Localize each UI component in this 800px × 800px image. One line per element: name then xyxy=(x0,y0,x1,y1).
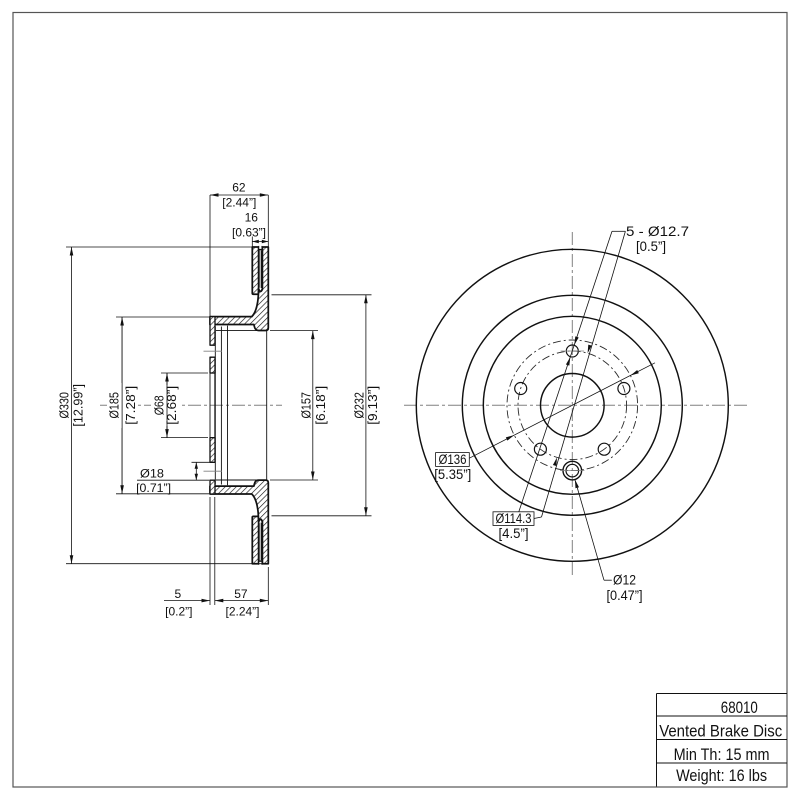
62/16 dim extension right xyxy=(267,195,269,247)
svg-text:[0.63”]: [0.63”] xyxy=(232,226,266,240)
svg-text:Ø157: Ø157 xyxy=(298,392,313,419)
vent slot top cap (lower) xyxy=(259,519,263,522)
hat wall between bore and lower hole xyxy=(210,438,215,463)
table row line 2 xyxy=(657,739,788,741)
svg-text:[2.44”]: [2.44”] xyxy=(222,196,256,210)
bore edge bottom O68 xyxy=(210,437,215,439)
16 dim extension left xyxy=(251,237,253,247)
lower hole center tick xyxy=(560,470,584,472)
inboard plate, neck and hat barrel (lower section) xyxy=(210,480,268,564)
hat wall lower piece xyxy=(210,480,215,494)
friction band inner circle O232 xyxy=(462,295,682,515)
front view horizontal centerline xyxy=(404,404,750,406)
svg-text:Ø136: Ø136 xyxy=(439,452,467,467)
svg-text:62: 62 xyxy=(232,181,246,195)
O330 extension top xyxy=(66,246,252,248)
svg-text:[0.2”]: [0.2”] xyxy=(165,604,192,618)
svg-text:5: 5 xyxy=(174,587,181,601)
svg-text:Ø12: Ø12 xyxy=(613,573,636,588)
leader line C O136 diameter xyxy=(469,363,655,458)
leader line D to O12 hole xyxy=(575,480,604,581)
disc outer circle O330 xyxy=(416,249,728,561)
svg-text:[9.13”]: [9.13”] xyxy=(365,386,380,425)
hat face edge across bore xyxy=(209,373,211,438)
svg-text:Ø185: Ø185 xyxy=(107,392,122,419)
O330 dimension line xyxy=(71,247,73,564)
hat circle O185 xyxy=(483,316,661,494)
hat face inner edge across bore xyxy=(214,373,216,438)
57 dim extension right xyxy=(267,567,269,605)
label mask O68 xyxy=(151,385,181,426)
leader line B O114.3 diameter xyxy=(542,231,626,517)
bolt hole tick in wall xyxy=(204,350,223,352)
top bolt hole center tick xyxy=(561,350,585,352)
O157 dimension line xyxy=(312,331,314,480)
lower hole O12 circle xyxy=(566,464,579,477)
svg-text:Vented Brake Disc: Vented Brake Disc xyxy=(659,722,782,740)
label mask O185 xyxy=(107,383,137,428)
5/57 dim extension mid xyxy=(214,497,216,605)
O157 extension bottom xyxy=(270,479,318,481)
O68 dimension line xyxy=(166,373,168,438)
hat fillet edge xyxy=(227,326,229,486)
left view horizontal centerline xyxy=(100,404,282,406)
5 dim extension left xyxy=(209,497,211,605)
16 dimension line xyxy=(252,241,268,243)
bore edge top O68 xyxy=(210,372,215,374)
O68 extension top xyxy=(161,372,208,374)
62 dim extension left xyxy=(209,195,211,316)
svg-text:[12.99”]: [12.99”] xyxy=(71,384,86,427)
svg-text:[2.68”]: [2.68”] xyxy=(164,386,179,425)
svg-text:[0.71”]: [0.71”] xyxy=(136,481,171,495)
svg-text:[5.35”]: [5.35”] xyxy=(434,467,471,482)
svg-text:Min Th: 15 mm: Min Th: 15 mm xyxy=(674,746,770,764)
bolt hole O12.7 top xyxy=(566,345,578,357)
O185 extension top xyxy=(116,316,209,318)
drum inner edge O157 bottom xyxy=(216,479,267,481)
svg-text:57: 57 xyxy=(234,587,248,601)
hat bore chamfer edge xyxy=(220,327,222,485)
bolt hole O12.7 lower-right xyxy=(598,443,610,455)
5 dimension line xyxy=(164,600,210,602)
O185 dimension line overdraw xyxy=(121,317,123,494)
outboard friction plate (upper section) xyxy=(252,247,258,294)
O185 dimension line xyxy=(121,317,123,494)
vent slot bottom notch (lower) xyxy=(259,562,262,566)
svg-text:Weight: 16 lbs: Weight: 16 lbs xyxy=(676,767,767,785)
inboard plate, neck and hat barrel (upper section) xyxy=(210,247,268,331)
svg-text:[0.47”]: [0.47”] xyxy=(607,588,643,603)
O330 extension bottom xyxy=(66,563,269,565)
O68 extension bottom xyxy=(161,437,208,439)
outboard friction plate (lower section) xyxy=(252,516,258,563)
leader tick 5-O12.7 label xyxy=(612,230,625,232)
hat wall between bolt hole and bore xyxy=(210,357,215,373)
O232 extension bottom xyxy=(272,515,372,517)
jog to O114.3 box xyxy=(534,517,542,519)
svg-text:5 - Ø12.7: 5 - Ø12.7 xyxy=(626,224,689,239)
center bore O68 xyxy=(541,374,605,438)
svg-text:Ø330: Ø330 xyxy=(57,392,72,419)
svg-text:[0.5”]: [0.5”] xyxy=(636,239,666,254)
table top edge xyxy=(657,693,788,695)
svg-text:[6.18”]: [6.18”] xyxy=(313,386,328,425)
O136 label box xyxy=(436,453,470,467)
vent slot bottom cap (upper) xyxy=(259,289,263,292)
drum end face edge xyxy=(266,331,268,480)
O68 dimension line overdraw xyxy=(166,373,168,438)
62 dimension line xyxy=(210,194,268,196)
leader line A through top bolt hole xyxy=(518,231,612,513)
O18 extension top xyxy=(192,461,211,463)
svg-text:Ø114.3: Ø114.3 xyxy=(496,511,532,526)
leader tick O12 label xyxy=(604,579,612,581)
svg-text:16: 16 xyxy=(245,210,259,224)
O18 dimension line xyxy=(195,462,197,480)
table left edge xyxy=(656,694,658,787)
front view vertical centerline xyxy=(571,232,573,577)
vent slot top notch xyxy=(259,246,262,250)
O185 extension bottom xyxy=(116,493,209,495)
bolt hole O12.7 upper-left xyxy=(515,383,527,395)
table row line 3 xyxy=(657,762,788,764)
svg-text:[2.24”]: [2.24”] xyxy=(225,604,259,618)
svg-text:[7.28”]: [7.28”] xyxy=(123,386,138,425)
O114.3 label box xyxy=(493,512,534,526)
lower hole tick in wall xyxy=(204,470,223,472)
drum inner edge O157 top xyxy=(216,330,267,332)
O232 dimension line xyxy=(365,295,367,516)
O232 extension top xyxy=(272,294,372,296)
O18 label shelf / extension bottom xyxy=(137,479,209,481)
table row line 1 xyxy=(657,715,788,717)
57 dimension line xyxy=(215,600,268,602)
vent vane lines (lower) xyxy=(258,523,260,560)
lower hole O18 counterbore circle xyxy=(563,461,582,480)
O157 extension top xyxy=(270,330,318,332)
bolt hole O12.7 lower-left xyxy=(534,443,546,455)
svg-text:68010: 68010 xyxy=(721,699,758,717)
circle O136 dash-dot xyxy=(507,340,638,471)
bolt hole O12.7 upper-right xyxy=(618,383,630,395)
hat mounting face wall, upper piece xyxy=(210,317,215,346)
svg-text:Ø18: Ø18 xyxy=(140,466,164,480)
bolt circle O114.3 dash-dot xyxy=(518,351,627,460)
vent vane lines (upper) xyxy=(258,251,260,288)
hat bore inner edge xyxy=(214,327,216,485)
svg-text:[4.5”]: [4.5”] xyxy=(499,526,529,541)
